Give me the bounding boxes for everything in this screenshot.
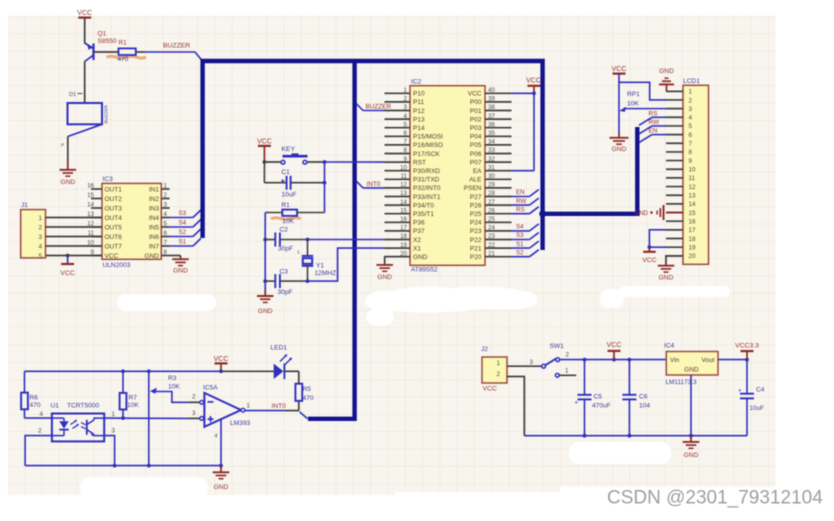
resistor R1 10K (reset) [265,202,324,225]
svg-text:1: 1 [496,360,500,367]
svg-text:RW: RW [516,198,526,205]
svg-text:P23: P23 [470,228,482,235]
svg-text:35: 35 [488,130,495,137]
svg-text:P11: P11 [413,99,424,106]
svg-text:36: 36 [488,121,495,128]
svg-text:OUT1: OUT1 [105,186,123,193]
svg-text:1: 1 [112,411,116,418]
svg-text:R7: R7 [129,394,138,401]
svg-text:J2: J2 [481,346,488,353]
svg-text:C5: C5 [594,393,603,400]
svg-text:LCD1: LCD1 [683,78,700,85]
wire VCC to KEY [263,160,282,164]
svg-text:4: 4 [164,211,168,218]
svg-text:31: 31 [488,164,495,171]
svg-text:S8550: S8550 [98,38,117,45]
net label EN (LCD pin6) with wire [639,128,666,143]
svg-text:GND: GND [684,366,699,373]
svg-text:LED1: LED1 [271,344,288,351]
svg-text:5: 5 [164,221,168,228]
svg-text:19: 19 [689,244,697,251]
wire R6 to U1 pin4 [25,411,52,418]
net label RS (P25) with wire [512,206,539,213]
svg-text:IN6: IN6 [149,234,160,241]
wire J2 pin2 to bottom rail [507,377,524,436]
svg-text:ALE: ALE [469,177,482,184]
svg-text:VCC: VCC [483,385,497,392]
svg-text:16: 16 [689,219,697,226]
wire Q1 base to R1 [94,51,119,53]
wire buzzer to GND [61,137,68,162]
resistor R7 10K [120,371,140,418]
svg-text:IC2: IC2 [411,78,422,85]
svg-text:28: 28 [488,190,495,197]
potentiometer RP1 10K [619,74,640,133]
net label EN (P27) with wire [512,189,539,196]
svg-text:GND: GND [377,274,392,281]
net label S2 with wire [170,229,201,237]
svg-text:KEY: KEY [281,146,295,153]
svg-text:470uF: 470uF [592,402,611,409]
svg-text:BUZZER: BUZZER [104,104,109,123]
svg-text:GND: GND [634,210,648,217]
svg-text:+: + [575,400,579,407]
svg-text:27: 27 [488,199,495,206]
wire C3 node to IC2 X1 [308,248,385,281]
svg-text:R1: R1 [281,202,290,209]
connector J1 [21,202,46,260]
svg-text:ULN2003: ULN2003 [103,262,131,269]
svg-text:6: 6 [689,132,693,139]
svg-text:S3: S3 [179,210,187,217]
IC2 right pin stubs 40-21 [485,87,512,257]
bus wire (branch to LCD) [539,127,637,217]
svg-text:C1: C1 [281,169,290,176]
svg-text:VCC: VCC [468,91,482,98]
svg-text:C4: C4 [756,387,765,394]
net label RW (P26) with wire [512,198,539,205]
svg-text:19: 19 [400,242,407,249]
svg-text:VCC: VCC [526,78,541,85]
power VCC (LCD pins 17/19) [642,230,666,264]
net label S2 (P20) with wire [512,249,539,256]
IC2 left pin names [413,91,443,261]
svg-text:16: 16 [87,183,94,190]
svg-text:8: 8 [404,147,408,154]
resistor R1 470 (base) [118,48,136,62]
svg-text:P20: P20 [470,254,482,261]
svg-text:14: 14 [87,202,94,209]
svg-text:20: 20 [689,253,697,260]
IC3 left pin stubs (16-9) [87,183,102,257]
svg-text:LM393: LM393 [230,420,250,427]
svg-text:BUZZER: BUZZER [366,104,392,111]
svg-text:P07: P07 [470,159,482,166]
capacitor C5 470uF [575,360,611,436]
svg-text:P27: P27 [470,194,482,201]
svg-text:P: P [61,143,64,149]
svg-text:3: 3 [530,359,534,366]
svg-text:2: 2 [404,96,408,103]
svg-text:R5: R5 [303,386,312,393]
svg-text:OUT4: OUT4 [105,215,123,222]
LCD1 pin stubs and numbers 1-20 [666,89,696,261]
svg-text:D1: D1 [69,92,76,98]
svg-text:GND: GND [659,275,674,282]
svg-text:S3: S3 [516,232,524,239]
svg-text:14: 14 [400,199,407,206]
svg-text:RS: RS [649,110,658,117]
wire RP1 wiper to LCD pin3 [624,108,666,110]
svg-text:10K: 10K [627,100,639,107]
svg-text:2: 2 [38,224,42,231]
svg-text:3: 3 [112,427,116,434]
svg-text:P02: P02 [470,116,482,123]
svg-text:AT89S52: AT89S52 [411,266,438,273]
power VCC (supply rail) [607,342,622,360]
svg-text:GND: GND [60,179,75,186]
wire VCC to LCD pin2 [619,82,666,100]
capacitor C2 30pF [265,226,309,252]
svg-text:Vout: Vout [701,357,714,364]
svg-text:P34/T0: P34/T0 [413,202,434,209]
net label RW (LCD pin5) with wire [639,119,666,134]
svg-text:38: 38 [488,104,495,111]
svg-text:P24: P24 [470,220,482,227]
svg-text:P06: P06 [470,151,482,158]
svg-text:13: 13 [689,193,697,200]
power VCC3.3 [735,343,759,360]
svg-text:1: 1 [297,250,300,256]
svg-text:P32/INT0: P32/INT0 [413,185,441,192]
svg-text:26: 26 [488,207,495,214]
svg-text:30: 30 [488,173,495,180]
bus wire (top horizontal + left and right verticals) [203,61,543,250]
svg-text:P26: P26 [470,202,482,209]
svg-text:BUZZER: BUZZER [163,42,190,49]
net label S1 with wire [170,239,201,247]
ground (RP1) [610,133,629,153]
ground (comparator) [25,464,229,491]
wire U1 pin3 to bottom rail [104,427,115,465]
svg-text:S2: S2 [516,249,524,256]
power VCC (reset circuit) [257,139,272,162]
svg-text:1: 1 [164,183,168,190]
svg-text:OUT2: OUT2 [105,196,123,203]
svg-text:RST: RST [413,159,426,166]
svg-text:14: 14 [689,201,697,208]
svg-text:VCC: VCC [214,356,229,363]
net label RS (LCD pin4) with wire [639,110,666,125]
svg-text:10uF: 10uF [750,405,765,412]
IC3 right pin names IN1-IN7 GND [145,186,160,259]
svg-text:1: 1 [247,402,251,409]
svg-text:32: 32 [488,156,495,163]
wire U1 pin1 / R7 to comparator + [104,411,199,420]
svg-text:4: 4 [38,243,42,250]
wire KEY to RST node [307,160,327,212]
annotation squiggle under R1 10K [271,218,301,220]
svg-text:P31/TXD: P31/TXD [413,177,440,184]
svg-text:IC4: IC4 [664,343,675,350]
svg-text:6: 6 [164,230,168,237]
annotation squiggle under R1 [107,56,147,58]
wire VCC to Q1 emitter [84,18,86,44]
svg-text:3: 3 [192,410,196,417]
ground (LCD pin1) [659,68,683,91]
power VCC (RP1) [612,66,627,73]
svg-text:X2: X2 [413,237,421,244]
svg-text:GND: GND [258,308,273,315]
net label BUZZER (P12) with wire [356,104,391,111]
svg-text:P16/MISO: P16/MISO [413,142,443,149]
svg-text:P13: P13 [413,116,425,123]
crystal Y1 12MHZ [297,240,336,282]
net label INT0 (P32) with wire [356,181,384,188]
net label S4 (P23) with wire [512,224,539,231]
op-amp IC5A LM393 [192,384,251,465]
svg-text:IN7: IN7 [149,243,160,250]
net label S3 (P22) with wire [512,232,539,239]
svg-text:P33/INT1: P33/INT1 [413,194,441,201]
svg-text:VCC: VCC [642,257,656,264]
svg-text:4: 4 [689,115,693,122]
svg-text:40: 40 [488,87,495,94]
svg-text:GND: GND [612,146,627,153]
svg-text:12: 12 [689,184,697,191]
svg-text:33: 33 [488,147,495,154]
svg-text:P04: P04 [470,134,482,141]
svg-text:U1: U1 [51,403,60,410]
svg-text:21: 21 [488,250,495,257]
svg-text:IC5A: IC5A [203,384,218,391]
svg-text:GND: GND [684,452,699,459]
svg-text:25: 25 [488,216,495,223]
svg-text:R1: R1 [119,40,128,47]
svg-text:P37: P37 [413,228,425,235]
svg-text:470: 470 [118,56,129,63]
svg-text:Vin: Vin [670,357,680,364]
svg-text:17: 17 [689,227,697,234]
svg-text:10K: 10K [168,383,180,390]
svg-text:3: 3 [38,234,42,241]
svg-text:15: 15 [400,207,407,214]
power VCC (Q1 emitter) [77,10,92,17]
IC2 right pin names [464,91,482,261]
svg-text:1: 1 [38,215,42,222]
net label S4 with wire [170,220,201,228]
svg-text:GND: GND [659,68,674,75]
switch SW1 [542,343,577,377]
svg-text:GND: GND [145,253,160,260]
ground (IC2 GND pin20) [376,257,410,281]
svg-text:RP1: RP1 [627,91,640,98]
svg-text:S4: S4 [179,220,187,227]
svg-text:2: 2 [566,352,570,359]
svg-text:P22: P22 [470,237,482,244]
svg-text:P36: P36 [413,220,425,227]
svg-text:5: 5 [38,253,42,260]
svg-text:Y1: Y1 [316,263,324,270]
svg-text:1: 1 [565,367,569,374]
wire Vout to VCC3.3 [718,358,749,362]
wire Q1 collector down to buzzer [69,62,85,104]
svg-text:CSDN @2301_79312104: CSDN @2301_79312104 [607,488,823,509]
svg-text:3: 3 [164,202,168,209]
ground (regulator) [683,375,700,459]
ground (crystal / reset) [257,291,274,316]
svg-text:104: 104 [639,402,650,409]
wire J2 pin1 to SW1 [507,359,542,366]
svg-text:P05: P05 [470,142,482,149]
svg-text:INT0: INT0 [367,181,381,188]
svg-text:16: 16 [400,216,407,223]
svg-text:10K: 10K [127,402,139,409]
svg-text:GND: GND [214,484,229,491]
svg-text:12: 12 [400,182,407,189]
wire SW1 to regulator input rail [560,358,667,362]
svg-text:Q1: Q1 [98,31,107,38]
svg-text:IN4: IN4 [149,215,160,222]
svg-text:2: 2 [496,371,500,378]
svg-text:18: 18 [689,236,697,243]
svg-text:IN1: IN1 [149,186,160,193]
svg-text:29: 29 [488,182,495,189]
MCU IC2 AT89S52 body [410,78,485,273]
svg-text:24: 24 [488,225,495,232]
svg-text:23: 23 [488,233,495,240]
svg-text:RW: RW [649,119,660,126]
IC2 left pin stubs 1-20 [385,87,411,257]
push button KEY [281,146,307,164]
potentiometer R3 10K [149,371,188,465]
svg-text:13: 13 [400,190,407,197]
svg-text:470: 470 [30,402,41,409]
regulator IC4 LM1117-3.3 [664,343,718,386]
svg-text:P17/SCK: P17/SCK [413,151,440,158]
svg-text:470: 470 [303,395,314,402]
svg-text:3: 3 [689,106,693,113]
svg-text:EN: EN [649,128,658,135]
svg-text:10: 10 [689,167,697,174]
svg-text:7: 7 [164,240,168,247]
svg-text:17: 17 [400,225,407,232]
svg-text:GND: GND [413,254,428,261]
svg-text:EN: EN [516,189,525,196]
svg-text:LM11173.3: LM11173.3 [666,379,697,386]
connector LCD1 body [683,78,709,264]
svg-text:P21: P21 [470,245,482,252]
svg-text:2: 2 [38,427,42,434]
svg-text:4: 4 [215,433,218,439]
svg-text:34: 34 [488,139,495,146]
svg-text:P15/MOSI: P15/MOSI [413,134,443,141]
wire U1 pin2 to bottom rail [25,427,52,465]
svg-text:10K: 10K [282,218,294,225]
svg-text:PSEN: PSEN [464,185,482,192]
svg-text:7: 7 [404,139,408,146]
LED1 with resistor wire [221,344,299,383]
svg-text:22: 22 [488,242,495,249]
svg-text:7: 7 [689,141,693,148]
wire RST node to IC2 RST pin [325,161,385,163]
wire R1 to ground rail [263,213,267,291]
wire VCC rail down to C1 [263,162,265,183]
capacitor C1 10uF [264,169,326,198]
svg-text:C6: C6 [639,393,648,400]
wire R3 wiper to comparator - input [188,394,200,403]
svg-text:RS: RS [516,206,525,213]
svg-text:VCC: VCC [612,66,627,73]
svg-text:EA: EA [473,168,482,175]
resistor R5 470 [295,384,313,411]
power VCC (comparator) [214,356,229,371]
svg-text:2: 2 [164,192,168,199]
svg-text:OUT5: OUT5 [105,224,123,231]
net label S1 (P21) with wire [512,241,539,248]
svg-text:39: 39 [488,96,495,103]
svg-text:10: 10 [400,164,407,171]
svg-text:S1: S1 [179,239,187,246]
ground (IC3 pin8) [170,256,189,275]
svg-text:VCC: VCC [257,139,272,146]
svg-text:GND: GND [173,268,188,275]
svg-text:4: 4 [404,113,408,120]
wire top supply rail [25,369,223,373]
svg-text:P00: P00 [470,99,482,106]
ground (LCD pin20) [658,256,683,282]
svg-text:P30/RXD: P30/RXD [413,168,440,175]
ground (buzzer) [60,161,77,186]
ground (LCD pin15, sideways) [634,205,683,220]
svg-text:P14: P14 [413,125,425,132]
capacitor C6 104 [622,360,650,436]
svg-text:VCC3.3: VCC3.3 [735,343,759,350]
svg-text:P25: P25 [470,211,482,218]
svg-text:18: 18 [400,233,407,240]
capacitor C4 10uF [738,360,765,436]
net label S3 with wire [170,210,201,218]
bus wire (middle vertical to INT0) [308,61,355,419]
svg-text:11: 11 [401,173,408,180]
svg-text:VCC: VCC [607,342,622,349]
IC3 right pin stubs (1-8) [161,183,169,257]
svg-text:OUT3: OUT3 [105,205,123,212]
svg-text:R3: R3 [168,375,177,382]
svg-text:2: 2 [192,394,196,401]
wires J1 to IC3 inputs [46,218,103,256]
svg-text:10uF: 10uF [281,192,296,199]
svg-text:VCC: VCC [77,10,92,17]
optical sensor U1 TCRT5000 [51,403,105,442]
wire C2 node to IC2 X2 [308,239,385,241]
svg-text:IN5: IN5 [149,224,160,231]
wire R1 to BUZZER net [136,52,202,60]
connector J2 [481,346,507,392]
svg-text:S4: S4 [516,224,524,231]
svg-text:P01: P01 [470,108,482,115]
svg-text:S1: S1 [516,241,524,248]
svg-text:5: 5 [689,123,693,130]
svg-text:8: 8 [164,249,168,256]
svg-text:11: 11 [689,175,696,182]
svg-text:OUT7: OUT7 [105,243,123,250]
svg-text:8: 8 [689,149,693,156]
capacitor C3 30pF [265,268,309,296]
svg-text:P03: P03 [470,125,482,132]
IC3 left pin names OUT1-OUT7 VCC [105,186,123,259]
svg-text:1: 1 [404,87,408,94]
